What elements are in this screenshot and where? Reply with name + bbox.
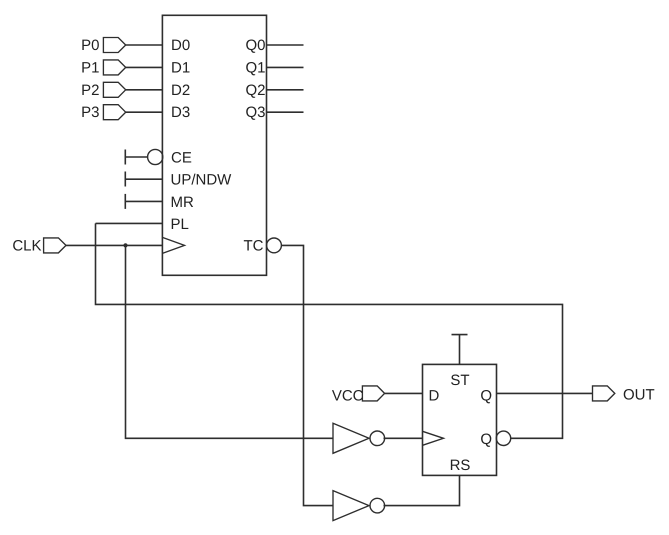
svg-text:OUT: OUT [623,387,655,404]
svg-text:VCC: VCC [332,387,364,404]
wire CLK to inverter G1 [126,245,334,438]
svg-text:P2: P2 [81,82,99,99]
pin CE open tick [124,150,126,165]
wire TC to inverter G2 [281,245,333,505]
wire UP/NDW stub [125,178,162,180]
port OUT [593,386,615,401]
wire P3 to D3 [126,111,163,113]
svg-text:D1: D1 [171,59,190,76]
pin MR open tick [124,194,126,209]
port P2 [103,82,125,97]
inverter G2 bubble [370,498,385,513]
svg-text:PL: PL [171,216,189,233]
wire vertical feedback [96,223,563,438]
svg-text:ST: ST [450,372,469,389]
svg-text:Q1: Q1 [245,59,265,76]
wire G1 out to FF clock [384,437,423,439]
inverter G2 [333,491,369,521]
pin TC inversion bubble [267,238,282,253]
svg-text:Q: Q [480,387,492,404]
flip-flop U2 body [423,364,497,475]
wire CE stub [125,156,148,158]
wire P0 to D0 [126,44,163,46]
svg-text:Q: Q [480,431,492,448]
port P3 [103,105,125,120]
counter U1 body [162,15,266,275]
svg-text:Q3: Q3 [245,104,265,121]
svg-text:D2: D2 [171,82,190,99]
wire P2 to D2 [126,89,163,91]
port VCC [362,386,384,401]
wire Q to OUT [497,392,593,394]
wire VCC to D [385,392,423,394]
port CLK [44,238,66,253]
wire Q3 stub [267,111,304,113]
svg-text:D3: D3 [171,104,190,121]
wire PL feedback from Qbar [96,222,163,224]
pin Qbar inversion bubble [496,431,510,445]
svg-text:P0: P0 [81,37,99,54]
wire Q2 stub [267,89,304,91]
wire CLK to clock pin [66,244,162,246]
svg-text:CLK: CLK [12,238,41,255]
svg-text:D: D [429,387,440,404]
svg-text:TC: TC [244,238,264,255]
pin CE inversion bubble [148,149,163,164]
wire Q0 stub [267,44,304,46]
svg-text:P1: P1 [81,59,99,76]
wire P1 to D1 [126,66,163,68]
clock edge triangle U2 [423,431,444,445]
port P0 [103,38,125,53]
port P1 [103,60,125,75]
svg-text:UP/NDW: UP/NDW [171,172,233,189]
pin ST stub with tick [452,335,468,365]
clock edge triangle U1 [162,237,184,253]
svg-text:D0: D0 [171,37,190,54]
inverter G1 bubble [370,431,385,446]
junction dot CLK node [123,243,127,247]
svg-text:P3: P3 [81,104,99,121]
svg-text:RS: RS [450,457,471,474]
wire G2 out to RS [384,475,460,505]
pin UP/NDW open tick [124,172,126,187]
svg-text:Q0: Q0 [245,37,265,54]
svg-text:CE: CE [171,149,192,166]
svg-text:MR: MR [171,194,194,211]
wire Q1 stub [267,66,304,68]
inverter G1 [333,423,369,453]
svg-text:Q2: Q2 [245,82,265,99]
wire MR stub [125,200,162,202]
